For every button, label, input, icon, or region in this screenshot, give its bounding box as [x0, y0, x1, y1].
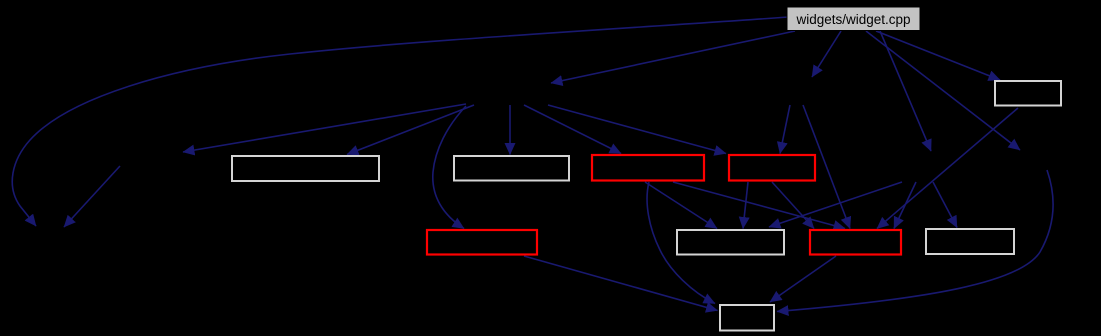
edge R1 to red box R4 [673, 182, 845, 229]
edge H2 to red box R4 [803, 105, 850, 229]
edge widget.cpp to top-right box [876, 31, 1000, 80]
edge widget.cpp to hub H1 [551, 31, 795, 83]
edge N3 to far-left node [64, 166, 120, 227]
edge H3 to box B4 [933, 182, 957, 228]
edge R1 to box B3 [645, 182, 717, 229]
node widgets/widget.cpp (gray) [787, 7, 920, 31]
edge H1 to box B2 [509, 105, 511, 155]
svg-text:widgets/widget.cpp: widgets/widget.cpp [795, 12, 910, 27]
box top-right [995, 81, 1061, 106]
edge R2 to box B3 [743, 182, 748, 229]
edge H1 to red box R3 (curve) [433, 106, 466, 229]
edge R3 to bottom box B5 [524, 256, 718, 311]
edge widget.cpp to hidden node H3 [880, 31, 931, 151]
edge H3 to red box R4 [894, 182, 916, 229]
bottom box B5 [720, 305, 774, 331]
edge R4 to bottom box B5 [770, 256, 836, 302]
box B2 [454, 156, 569, 181]
red box R3 [427, 230, 537, 255]
edge H2 to red box R2 [780, 105, 790, 154]
edge widget.cpp to hidden node H2 [812, 31, 841, 77]
red box R4 [810, 230, 901, 255]
edge H1 to left hidden node N3 [183, 104, 466, 152]
box B1 [232, 156, 379, 181]
box B3 [677, 230, 784, 255]
edge H1 to red box R1 [524, 105, 621, 154]
edge H1 to red box R2 [548, 105, 726, 154]
edge R1 to bottom box B5 (curve) [647, 182, 715, 304]
edge widget.cpp to hidden node H4 [866, 31, 1020, 150]
red box R1 [592, 155, 704, 181]
edge top-right box to red box R4 [877, 108, 1018, 229]
edge H3 to box B3 [769, 182, 902, 227]
edge H1 to box B1 [347, 105, 474, 155]
edge H4 to bottom box B5 (right curve) [777, 170, 1053, 312]
edge widget.cpp to far-left node (big curve) [12, 17, 789, 226]
red box R2 [729, 155, 815, 181]
box B4 [926, 229, 1014, 254]
edge R2 to red box R4 [772, 182, 814, 229]
